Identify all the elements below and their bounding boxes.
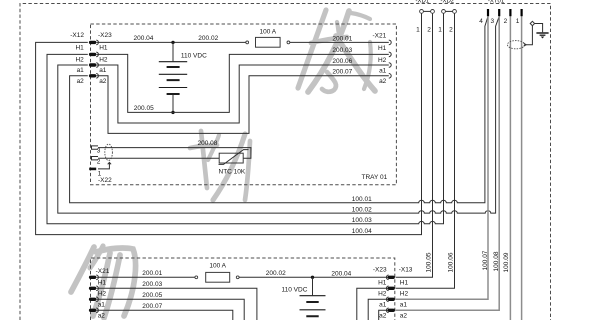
svg-text:H2: H2	[378, 57, 387, 64]
svg-text:2: 2	[504, 18, 508, 25]
fuse F2 right terminal	[236, 276, 239, 279]
svg-text:100.07: 100.07	[482, 250, 489, 270]
fuse F1 100 A body	[256, 37, 281, 47]
svg-text:a1: a1	[379, 302, 387, 309]
node battery bottom junction	[171, 111, 174, 114]
node battery top junction	[171, 41, 174, 44]
svg-text:3: 3	[490, 18, 494, 25]
svg-text:100.03: 100.03	[352, 217, 372, 224]
wire H1 row: -X21 to fuse left terminal	[97, 276, 195, 278]
XT1 pin 4 contact tip	[487, 9, 489, 16]
wire 200.08 from pin 3 over NTC to its right lead	[98, 148, 251, 159]
svg-text:H1: H1	[378, 280, 387, 287]
wire H2 loop through battery negative (200.05/200.03)	[97, 54, 389, 112]
wire 100.09 net: XT1 pin 2 down (cut)	[509, 16, 511, 320]
svg-text:200.04: 200.04	[331, 270, 351, 277]
wire a1 loop (200.06)	[97, 65, 389, 123]
node earth connection diamond	[530, 21, 534, 25]
svg-text:a1: a1	[379, 67, 387, 74]
svg-text:NTC 10K: NTC 10K	[219, 168, 246, 175]
svg-text:-X22: -X22	[98, 177, 112, 184]
wire H1 row: fuse to -X21	[290, 41, 389, 43]
wire H1 row: fuse to -X23 with battery tap	[239, 276, 389, 278]
connector -X22 pin 2 contact	[92, 157, 99, 160]
svg-text:4: 4	[479, 18, 483, 25]
fuse F2 left terminal	[195, 276, 198, 279]
connector -X12/-X23 pin a2 mating pair	[89, 74, 98, 79]
svg-text:H1: H1	[378, 45, 387, 52]
svg-text:100 A: 100 A	[259, 29, 276, 36]
XD2 terminal 2 circle	[453, 10, 457, 14]
XT1 pin 2 contact tip	[509, 9, 511, 16]
svg-text:-X23: -X23	[373, 267, 387, 274]
connector -X23/-X13 pin a2 mating pair	[386, 308, 394, 313]
wire 100.04 net: -X12 H1 to XD1 terminal 1	[36, 13, 422, 234]
wire 100.06 net: XD2 terminal 2 down to -X13 H2	[396, 13, 455, 288]
svg-text:1: 1	[516, 18, 520, 25]
wire a1 row right segment turning down (cut)	[368, 299, 389, 320]
wire from XT1 pin 1 down (cut)	[521, 16, 523, 320]
svg-text:200.04: 200.04	[134, 35, 154, 42]
svg-text:100.05: 100.05	[426, 252, 433, 272]
svg-text:2: 2	[427, 26, 431, 33]
connector -X23/-X13 pin H1 mating pair	[386, 275, 395, 280]
svg-text:200.01: 200.01	[332, 35, 352, 42]
wire a2 loop (200.07)	[97, 76, 389, 134]
svg-text:-XD2: -XD2	[440, 0, 454, 4]
svg-text:200.02: 200.02	[198, 35, 218, 42]
svg-text:a1: a1	[77, 67, 85, 74]
svg-text:-X21: -X21	[96, 268, 110, 275]
svg-text:H2: H2	[98, 291, 107, 298]
TRAY 01 dashed enclosure box	[91, 24, 397, 185]
wire diamond to ground	[535, 24, 543, 33]
svg-text:200.08: 200.08	[198, 140, 218, 147]
wire a2 row right segment turning down (cut)	[379, 310, 389, 320]
svg-text:200.07: 200.07	[142, 303, 162, 310]
fuse F1 right terminal	[287, 41, 290, 44]
svg-text:200.07: 200.07	[332, 69, 352, 76]
node battery2 top junction	[311, 276, 314, 279]
svg-text:1: 1	[438, 26, 442, 33]
fuse F2 100 A body	[206, 272, 230, 282]
svg-text:a2: a2	[77, 78, 85, 85]
svg-text:H2: H2	[75, 57, 84, 64]
svg-text:a1: a1	[99, 67, 107, 74]
cable shield dashed oval around pins 1-2 wires	[507, 41, 524, 49]
svg-text:3: 3	[97, 148, 101, 155]
wire H2 row right segment turning down (cut)	[357, 288, 389, 320]
svg-text:100 A: 100 A	[209, 263, 226, 270]
shield tail arrow	[108, 162, 111, 164]
svg-text:100.09: 100.09	[503, 252, 510, 272]
fuse F1 left terminal	[246, 41, 249, 44]
svg-text:a2: a2	[98, 313, 106, 320]
svg-text:200.03: 200.03	[332, 47, 352, 54]
battery B2 110 VDC (cut at bottom)	[300, 277, 326, 316]
svg-text:-XT01: -XT01	[488, 0, 505, 4]
connector -X12/-X23 pin H2 mating pair	[89, 52, 98, 57]
svg-text:200.05: 200.05	[134, 105, 154, 112]
svg-text:H2: H2	[99, 57, 108, 64]
svg-text:110 VDC: 110 VDC	[282, 286, 308, 293]
svg-text:1: 1	[416, 26, 420, 33]
connector -X21 pin a1 socket	[389, 63, 391, 68]
XD2 terminal 1 circle	[442, 10, 446, 14]
wire a2 row left segment (200.07) turning down (cut)	[97, 310, 233, 320]
connector -X21 pin a2 socket	[389, 74, 391, 79]
XD1 bridge link	[422, 10, 433, 12]
svg-text:200.02: 200.02	[266, 270, 286, 277]
svg-text:H1: H1	[99, 45, 108, 52]
wire from pin 2 to NTC left lead	[98, 157, 219, 159]
wire shield to earth node	[526, 26, 532, 45]
connector -X21 pin H2 mating pair	[89, 286, 98, 291]
svg-text:-XD1: -XD1	[415, 0, 429, 4]
svg-text:200.01: 200.01	[142, 270, 162, 277]
wire a1 row left segment (200.05) turning down (cut)	[97, 299, 245, 320]
svg-text:a2: a2	[379, 78, 387, 85]
shield screen dashed oval around NTC pair	[105, 144, 113, 160]
wire 100.05 net: XD1 terminal 2 down to -X13 H1	[396, 13, 433, 277]
svg-text:TRAY 01: TRAY 01	[362, 174, 388, 181]
connector -X22 pin 1 contact	[89, 168, 96, 171]
svg-text:H1: H1	[98, 280, 107, 287]
wire 100.08 net: XT1 pin 3 down to -X13 a2	[396, 16, 500, 310]
svg-text:-X12: -X12	[70, 32, 84, 39]
thermistor NTC 10K body	[219, 153, 243, 163]
connector -X23/-X13 pin H2 mating pair	[386, 286, 395, 291]
wire 100.02 net: -X12 a1 to XT1 pin 3, hops at crossings	[58, 16, 499, 213]
connector -X21 pin a2 mating pair	[89, 308, 98, 313]
svg-text:100.08: 100.08	[493, 251, 500, 271]
svg-text:a2: a2	[400, 313, 408, 320]
thermistor NTC bent diagonal mark	[219, 150, 249, 165]
svg-text:H2: H2	[400, 291, 409, 298]
svg-text:100.06: 100.06	[448, 252, 455, 272]
wire H2 row left segment (200.03) turning down (cut)	[97, 288, 257, 320]
svg-text:a2: a2	[99, 78, 107, 85]
svg-text:100.02: 100.02	[352, 207, 372, 214]
connector -X21 pin H1 mating pair	[89, 275, 98, 280]
wire 100.07 net: XT1 pin 4 down to -X13 a1	[396, 16, 488, 299]
svg-text:100.01: 100.01	[352, 196, 372, 203]
svg-text:100.04: 100.04	[352, 228, 372, 235]
ground earth symbol	[536, 33, 548, 39]
wire H1 row: -X23 to fuse left terminal with battery tap	[97, 41, 246, 43]
wire 100.01 net: -X12 a2 to XT1 pin 4, hops at crossings	[70, 16, 488, 202]
svg-text:H1: H1	[75, 45, 84, 52]
XT1 pin 3 contact tip	[498, 9, 500, 16]
shield arrow tip	[524, 43, 527, 46]
svg-text:200.06: 200.06	[332, 58, 352, 65]
wire 100.03 net: -X12 H2 to XD2 terminal 1, hops at crossings	[47, 13, 444, 223]
connector -X21 pin H2 socket	[389, 52, 391, 57]
svg-text:-X21: -X21	[372, 33, 386, 40]
connector -X23/-X13 pin a1 mating pair	[386, 297, 395, 302]
TRAY 02 dashed enclosure box (cut at bottom)	[91, 258, 395, 320]
svg-text:H2: H2	[378, 291, 387, 298]
battery B1 110 VDC	[159, 42, 187, 112]
svg-text:110 VDC: 110 VDC	[181, 52, 207, 59]
XD2 bridge link	[444, 10, 455, 12]
WATERMARKS	[71, 10, 375, 318]
XD1 terminal 1 circle	[420, 10, 424, 14]
connector -X21 pin H1 socket	[389, 40, 391, 45]
svg-text:a1: a1	[400, 302, 408, 309]
svg-text:H1: H1	[400, 280, 409, 287]
wire shield drain from pin 1 to screen	[98, 163, 109, 169]
connector -X12/-X23 pin a1 mating pair	[89, 63, 99, 68]
connector -X21 pin a1 mating pair	[89, 297, 98, 302]
XD1 terminal 2 circle	[431, 10, 435, 14]
XT1 pin 1 contact tip	[521, 9, 523, 16]
svg-text:-X13: -X13	[399, 267, 413, 274]
svg-text:200.03: 200.03	[142, 281, 162, 288]
connector -X22 pin 3 contact	[92, 146, 99, 149]
svg-text:a1: a1	[98, 302, 106, 309]
connector -X12/-X23 pin H1 mating pair	[89, 40, 98, 45]
svg-text:2: 2	[97, 158, 101, 165]
svg-text:2: 2	[449, 26, 453, 33]
svg-text:a2: a2	[379, 313, 387, 320]
svg-text:-X23: -X23	[98, 32, 112, 39]
svg-text:200.05: 200.05	[142, 292, 162, 299]
